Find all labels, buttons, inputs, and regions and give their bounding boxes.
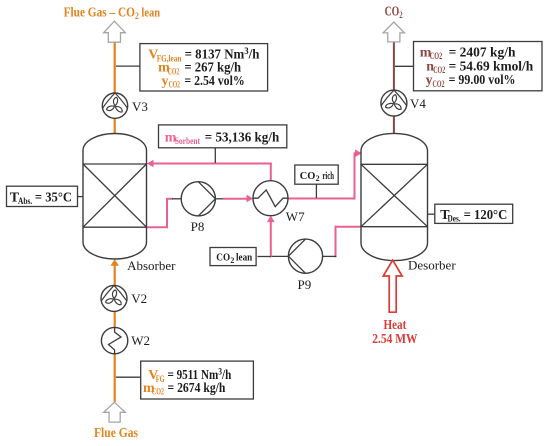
box: CO2 rich label box	[295, 165, 338, 184]
svg-text:= 54.69 kmol/h: = 54.69 kmol/h	[449, 59, 534, 74]
wire: black stub into P8 left	[172, 198, 182, 200]
svg-text:Abs.: Abs.	[18, 196, 32, 206]
box: top-left info box V_FG,lean / m_CO2 / y_CO2	[140, 44, 268, 91]
wire: black stub out of P8 right	[215, 198, 224, 200]
absorber column vessel with packing	[83, 134, 147, 260]
pump P8	[181, 182, 215, 216]
label: Flue Gas (orange)	[94, 426, 138, 441]
box: T_Des temperature box	[435, 204, 513, 223]
svg-text:2: 2	[316, 174, 320, 183]
desorber column vessel with packing	[361, 133, 428, 260]
label: Flue Gas - CO2 lean (orange)	[64, 4, 161, 22]
svg-text:lean: lean	[236, 252, 252, 264]
svg-text:W7: W7	[286, 209, 305, 224]
label: Heat (red)	[384, 318, 407, 333]
svg-text:FG: FG	[156, 374, 165, 384]
wire: connector to bottom info box	[116, 376, 142, 378]
svg-text:CO: CO	[216, 252, 230, 264]
label: P9	[298, 277, 312, 292]
svg-text:Des.: Des.	[448, 214, 461, 224]
svg-text:2.54 MW: 2.54 MW	[372, 332, 417, 347]
svg-text:V3: V3	[132, 99, 148, 114]
wire: pink rich sorbent into desorber	[354, 152, 356, 154]
svg-text:= 120°C: = 120°C	[464, 208, 508, 223]
box: m_Sorbent info box	[159, 125, 287, 148]
wire: flue gas orange line absorber bottom to V2	[114, 264, 116, 286]
heat exchanger W2	[101, 327, 127, 353]
wire: flue gas orange line V3 to absorber top	[114, 118, 116, 136]
fan V2	[101, 285, 127, 311]
label: W7	[286, 209, 305, 224]
svg-text:Flue Gas – CO2 lean: Flue Gas – CO2 lean	[64, 4, 161, 22]
svg-text:Sorbent: Sorbent	[175, 136, 200, 146]
wire: pink lean sorbent W7 top riser	[270, 163, 272, 181]
svg-text:Flue Gas: Flue Gas	[94, 426, 138, 441]
wire: CO2 dark-red line above V4	[393, 41, 395, 90]
wire: flue gas orange line V2 to W2	[114, 311, 116, 327]
label: Absorber	[127, 258, 176, 273]
wire: connector from absorber to T_Abs box	[77, 196, 84, 198]
label: V3	[132, 99, 148, 114]
arrow: flue gas outline arrow bottom	[104, 402, 126, 422]
label: P8	[191, 219, 205, 234]
wire: connector from desorber to T_Des box	[427, 213, 436, 215]
arrow: pink arrowhead into desorber left	[355, 149, 362, 157]
svg-text:CO2: CO2	[152, 387, 165, 397]
svg-text:P9: P9	[298, 277, 312, 292]
wire: pink lean sorbent top line to absorber	[150, 163, 272, 165]
svg-text:CO2: CO2	[169, 80, 181, 90]
wire: connector to top-left info box	[116, 65, 141, 67]
wire: connector from CO2 rich box down to pink line	[315, 184, 317, 198]
svg-text:= 2407 kg/h: = 2407 kg/h	[449, 45, 516, 60]
svg-text:= 53,136 kg/h: = 53,136 kg/h	[205, 130, 280, 145]
wire: pink rich sorbent riser to P8 level	[166, 198, 168, 228]
svg-text:W2: W2	[131, 333, 150, 348]
wire: connector to top-right info box	[395, 65, 415, 67]
svg-text:= 99.00 vol%: = 99.00 vol%	[449, 73, 516, 88]
fan V3	[102, 93, 127, 118]
svg-text:= 2.54 vol%: = 2.54 vol%	[184, 74, 244, 89]
arrow: pink arrowhead into W7 bottom	[267, 215, 275, 222]
svg-text:CO2: CO2	[433, 65, 445, 75]
box: CO2 lean label box	[210, 248, 256, 266]
wire: pink rich sorbent riser up to desorber inlet	[354, 153, 356, 199]
label: W2	[131, 333, 150, 348]
wire: pink rich sorbent, absorber outlet horizontal	[147, 226, 168, 228]
wire: pink rich sorbent P8 to W7	[223, 198, 250, 200]
svg-text:= 35°C: = 35°C	[35, 190, 72, 205]
wire: CO2 dark-red line V4 to desorber top	[393, 116, 395, 136]
arrow: flue gas outline arrow top-left	[104, 21, 126, 42]
arrow: pink arrowhead into W7 left	[247, 195, 254, 203]
wire: black stub out of P9 left	[271, 255, 289, 257]
wire: pink rich sorbent W7 to riser	[288, 198, 355, 200]
label: V4	[410, 96, 426, 111]
wire: flue gas orange line W2 down to flue-gas arrow	[114, 354, 116, 403]
svg-text:Desorber: Desorber	[408, 258, 456, 273]
label: 2.54 MW (red)	[372, 332, 417, 347]
arrow: red heat arrow into desorber bottom	[383, 260, 402, 312]
label: V2	[131, 291, 147, 306]
svg-text:V4: V4	[410, 96, 426, 111]
heat exchanger W7	[253, 181, 288, 216]
wire: pink lean sorbent drop to P9 level	[335, 226, 337, 257]
svg-text:P8: P8	[191, 219, 205, 234]
fan V4	[381, 90, 407, 116]
arrow: orange feed arrowhead into absorber bottom	[110, 259, 119, 266]
pump P9	[288, 239, 322, 273]
svg-text:y: y	[162, 74, 169, 89]
box: T_Abs temperature box	[7, 186, 78, 206]
svg-text:= 2674 kg/h: = 2674 kg/h	[168, 381, 226, 396]
arrow: CO2 outline arrow top-right	[383, 22, 404, 42]
svg-text:V2: V2	[131, 291, 147, 306]
wire: pink rich sorbent into P8	[167, 198, 173, 200]
wire: connector from m_Sorbent box down to pink line	[214, 148, 216, 163]
svg-text:rich: rich	[322, 170, 334, 182]
svg-text:CO2: CO2	[168, 66, 180, 76]
label: Desorber	[408, 258, 456, 273]
svg-text:2: 2	[230, 256, 234, 265]
svg-text:CO2: CO2	[433, 79, 445, 89]
box: top-right info box m_CO2 / n_CO2 / y_CO2	[414, 42, 543, 91]
box: bottom info box V_FG / m_CO2	[141, 361, 254, 399]
wire: pink lean sorbent desorber outlet horizontal	[335, 226, 362, 228]
wire: pink lean sorbent riser P9 to W7 bottom	[270, 218, 272, 257]
svg-text:Absorber: Absorber	[127, 258, 176, 273]
wire: flue gas orange line above V3	[114, 42, 116, 94]
label: CO2 (dark red)	[385, 5, 403, 22]
wire: connector from CO2 lean box to pink line	[258, 256, 272, 258]
arrow: pink arrowhead into absorber right	[147, 160, 154, 168]
wire: black stub into P9 right	[323, 255, 337, 257]
svg-text:CO: CO	[300, 170, 316, 182]
